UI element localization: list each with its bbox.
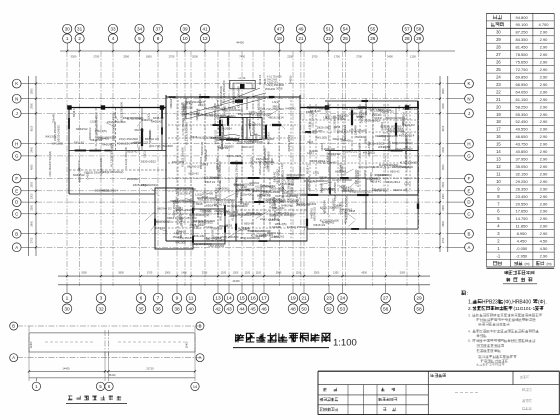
svg-text:51: 51 — [326, 27, 332, 32]
top grid bubbles — [63, 24, 424, 43]
svg-text:WKL3(5): WKL3(5) — [312, 129, 322, 133]
svg-text:8Φ2%0 2/2: 8Φ2%0 2/2 — [298, 204, 311, 207]
svg-text:KL12(3) 300x600: KL12(3) 300x600 — [204, 106, 226, 110]
svg-text:Φ8@100/200(2): Φ8@100/200(2) — [374, 174, 392, 177]
svg-text:7400: 7400 — [239, 55, 245, 59]
svg-text:WKL3(5): WKL3(5) — [315, 136, 327, 140]
svg-text:3300: 3300 — [123, 55, 129, 59]
svg-text:G4Φ10: G4Φ10 — [250, 157, 254, 167]
svg-text:3300: 3300 — [71, 55, 77, 59]
svg-text:WKL3(5): WKL3(5) — [406, 138, 409, 148]
svg-text:3Φ18: 3Φ18 — [349, 209, 356, 213]
svg-text:90.100: 90.100 — [515, 22, 528, 27]
svg-text:L3(1): L3(1) — [313, 170, 319, 174]
svg-text:2500: 2500 — [31, 181, 34, 187]
svg-text:L5(2) 250x500: L5(2) 250x500 — [49, 161, 52, 177]
svg-text:Φ8@100/200(2): Φ8@100/200(2) — [189, 213, 209, 217]
svg-text:L5(2) 250x500: L5(2) 250x500 — [119, 137, 139, 141]
beam annotations — [45, 74, 418, 248]
svg-text:WKL3(5): WKL3(5) — [337, 113, 349, 117]
svg-text:84.350: 84.350 — [515, 37, 528, 42]
svg-text:WKL3(5): WKL3(5) — [292, 176, 295, 186]
svg-text:8Φ2%0 2/2: 8Φ2%0 2/2 — [343, 149, 358, 153]
svg-text:54: 54 — [343, 27, 349, 32]
svg-text:2900: 2900 — [442, 103, 445, 109]
svg-text:2700: 2700 — [442, 237, 445, 243]
svg-text:L5(2) 250x500: L5(2) 250x500 — [202, 175, 219, 179]
svg-text:3Φ18: 3Φ18 — [190, 135, 197, 139]
svg-text:46.650: 46.650 — [515, 134, 528, 139]
svg-text:8Φ2%0 2/2: 8Φ2%0 2/2 — [145, 137, 159, 141]
svg-text:14: 14 — [193, 385, 197, 389]
svg-text:2.90: 2.90 — [540, 119, 549, 124]
svg-text:K: K — [15, 81, 18, 86]
svg-text:G4Φ10: G4Φ10 — [155, 226, 165, 230]
svg-text:34: 34 — [137, 27, 143, 32]
svg-text:12: 12 — [202, 36, 208, 41]
svg-text:KL7(2) 250x600: KL7(2) 250x600 — [231, 200, 235, 221]
svg-text:49.550: 49.550 — [515, 127, 528, 132]
svg-text:B: B — [12, 324, 15, 329]
svg-text:35.050: 35.050 — [515, 164, 528, 169]
svg-text:B: B — [199, 324, 202, 329]
svg-text:19: 19 — [290, 296, 296, 302]
svg-text:6Φ18 4/2: 6Φ18 4/2 — [244, 223, 254, 226]
svg-text:H: H — [15, 141, 18, 146]
svg-text:250x400: 250x400 — [241, 193, 253, 197]
svg-text:2Φ25+2Φ22: 2Φ25+2Φ22 — [133, 183, 148, 187]
svg-text:81.450: 81.450 — [515, 45, 528, 50]
svg-text:4Φ16;2Φ14: 4Φ16;2Φ14 — [386, 180, 401, 184]
svg-text:2.90: 2.90 — [540, 45, 549, 50]
svg-text:F: F — [15, 176, 18, 181]
svg-text:3Φ18: 3Φ18 — [327, 102, 330, 109]
svg-text:L5(2) 250x500: L5(2) 250x500 — [395, 147, 413, 151]
svg-text:6Φ18 4/2: 6Φ18 4/2 — [242, 146, 253, 149]
svg-text:26: 26 — [496, 60, 501, 65]
svg-text:35: 35 — [138, 306, 144, 312]
svg-text:75.650: 75.650 — [515, 60, 528, 65]
svg-text:8Φ2%0 2/2: 8Φ2%0 2/2 — [95, 189, 110, 193]
svg-text:37.950: 37.950 — [515, 157, 528, 162]
grid axis lines (dash-dot) — [36, 51, 448, 286]
svg-text:53: 53 — [340, 306, 346, 312]
svg-text:E: E — [15, 188, 18, 193]
svg-text:2.90: 2.90 — [540, 82, 549, 87]
svg-text:B: B — [15, 231, 18, 236]
svg-text:250x400: 250x400 — [53, 113, 56, 123]
svg-text:14.750: 14.750 — [515, 216, 528, 221]
svg-text:52.450: 52.450 — [515, 119, 528, 124]
svg-text:26.350: 26.350 — [515, 186, 528, 191]
svg-text:G4Φ10: G4Φ10 — [334, 203, 344, 207]
svg-text:4.700: 4.700 — [538, 22, 549, 27]
svg-text:2.90: 2.90 — [540, 52, 549, 57]
svg-text:250x400: 250x400 — [354, 125, 358, 136]
svg-text:2Φ25+2Φ22: 2Φ25+2Φ22 — [192, 234, 207, 238]
svg-text:WKL3(5): WKL3(5) — [275, 222, 287, 226]
svg-text:1400: 1400 — [181, 271, 187, 274]
svg-text:24: 24 — [340, 296, 346, 302]
svg-text:21: 21 — [301, 296, 307, 302]
svg-text:2.90: 2.90 — [540, 97, 549, 102]
svg-text:2700: 2700 — [169, 55, 175, 59]
svg-text:2900: 2900 — [276, 271, 282, 274]
svg-text:KL12(3) 300x600: KL12(3) 300x600 — [332, 178, 352, 182]
building walls — [67, 76, 418, 250]
svg-text:6Φ18 4/2: 6Φ18 4/2 — [73, 106, 76, 117]
left dimension lines — [21, 76, 37, 256]
svg-text:4.: 4. — [468, 330, 471, 334]
svg-text:27: 27 — [496, 52, 501, 57]
svg-text:20.550: 20.550 — [515, 201, 528, 206]
left grid bubbles — [12, 79, 21, 252]
svg-text:2.90: 2.90 — [540, 67, 549, 72]
svg-text:2.90: 2.90 — [540, 30, 549, 35]
svg-text:L5(2) 250x500: L5(2) 250x500 — [333, 182, 337, 201]
svg-text:29: 29 — [496, 37, 501, 42]
svg-text:-0.050: -0.050 — [516, 246, 528, 251]
svg-text:87.250: 87.250 — [515, 30, 528, 35]
svg-text:KL7(2) 250x600: KL7(2) 250x600 — [151, 144, 173, 148]
svg-text:Φ8@100/200(2): Φ8@100/200(2) — [280, 170, 284, 192]
storey table — [486, 13, 554, 283]
svg-text:L3(1): L3(1) — [404, 182, 411, 186]
svg-text:55: 55 — [370, 27, 376, 32]
svg-text:L3(1): L3(1) — [198, 103, 205, 107]
svg-text:20: 20 — [496, 104, 501, 109]
svg-text:G4Φ10: G4Φ10 — [270, 235, 279, 239]
svg-text:6Φ18 4/2: 6Φ18 4/2 — [307, 163, 310, 174]
svg-text:43: 43 — [226, 306, 232, 312]
svg-text:58.250: 58.250 — [515, 104, 528, 109]
svg-text:Φ8@100/200(2): Φ8@100/200(2) — [392, 141, 413, 145]
svg-text:3Φ18: 3Φ18 — [270, 213, 277, 217]
svg-text:2.90: 2.90 — [540, 209, 549, 214]
svg-text:58: 58 — [416, 306, 422, 312]
svg-text:L3(1): L3(1) — [307, 151, 314, 155]
svg-text:2.90: 2.90 — [540, 60, 549, 65]
svg-text:2.90: 2.90 — [540, 231, 549, 236]
svg-text:-2.950: -2.950 — [516, 254, 528, 259]
svg-text:15: 15 — [496, 142, 501, 147]
svg-text:13: 13 — [496, 157, 501, 162]
svg-text:4.50: 4.50 — [540, 239, 549, 244]
svg-text:N4Φ2%2: N4Φ2%2 — [281, 204, 293, 208]
svg-text:18: 18 — [496, 119, 501, 124]
right dimension lines — [439, 76, 465, 252]
svg-text:11.850: 11.850 — [516, 224, 529, 229]
svg-text:Φ8@100/200(2): Φ8@100/200(2) — [102, 170, 123, 174]
svg-text:2.90: 2.90 — [540, 224, 549, 229]
svg-text:4: 4 — [112, 36, 115, 41]
svg-text:6Φ18 4/2: 6Φ18 4/2 — [245, 98, 249, 110]
svg-text:KL7(2) 250x600: KL7(2) 250x600 — [127, 119, 144, 121]
svg-text:KL7(2) 250x600: KL7(2) 250x600 — [149, 129, 152, 148]
svg-text:L5(2) 250x500: L5(2) 250x500 — [279, 198, 299, 202]
svg-text:G4Φ10: G4Φ10 — [272, 196, 276, 205]
svg-text:KL7(2) 250x600: KL7(2) 250x600 — [384, 165, 403, 169]
svg-text:KL7(2) 250x600: KL7(2) 250x600 — [237, 86, 241, 108]
svg-text:55.350: 55.350 — [515, 112, 528, 117]
svg-text:22: 22 — [326, 36, 332, 41]
svg-text:2700: 2700 — [202, 271, 208, 274]
svg-text:B: B — [468, 231, 471, 236]
svg-text:2.90: 2.90 — [540, 186, 549, 191]
svg-text:2.: 2. — [468, 306, 472, 311]
leader hairlines — [106, 99, 361, 238]
svg-text:42: 42 — [215, 306, 221, 312]
svg-text:2Φ25+2Φ22: 2Φ25+2Φ22 — [176, 208, 193, 212]
svg-text:38: 38 — [174, 306, 180, 312]
svg-text:50: 50 — [301, 306, 307, 312]
svg-text:2Φ25+2Φ22: 2Φ25+2Φ22 — [253, 189, 268, 193]
svg-text:L5(2) 250x500: L5(2) 250x500 — [263, 148, 267, 168]
svg-text:4Φ16;2Φ14: 4Φ16;2Φ14 — [314, 106, 328, 110]
svg-text:5: 5 — [138, 36, 141, 41]
svg-text:10: 10 — [182, 36, 188, 41]
svg-text:30: 30 — [64, 306, 70, 312]
svg-text:N4Φ2%2: N4Φ2%2 — [339, 165, 343, 178]
svg-text:6Φ18 4/2: 6Φ18 4/2 — [127, 150, 138, 153]
svg-text:4Φ16;2Φ14: 4Φ16;2Φ14 — [210, 226, 214, 241]
svg-text:L3(1): L3(1) — [357, 115, 364, 119]
svg-text:21: 21 — [298, 36, 304, 41]
svg-text:4300: 4300 — [361, 271, 367, 274]
svg-text:KL7(2) 250x600: KL7(2) 250x600 — [222, 80, 226, 102]
svg-text:2.90: 2.90 — [540, 142, 549, 147]
svg-text:5.: 5. — [468, 339, 471, 343]
svg-text:15: 15 — [239, 296, 245, 302]
svg-text:N4Φ2%2: N4Φ2%2 — [204, 149, 208, 161]
svg-text:G4Φ10: G4Φ10 — [342, 189, 352, 193]
svg-text:28: 28 — [404, 36, 410, 41]
svg-text:2Φ25+2Φ22: 2Φ25+2Φ22 — [307, 175, 311, 190]
svg-text:2.90: 2.90 — [540, 254, 549, 259]
svg-text:16: 16 — [250, 296, 256, 302]
svg-text:14400: 14400 — [62, 367, 70, 371]
svg-text:3Φ18: 3Φ18 — [196, 202, 203, 206]
svg-text:12: 12 — [496, 164, 501, 169]
svg-text:2.90: 2.90 — [540, 75, 549, 80]
svg-text:1.: 1. — [468, 300, 472, 306]
svg-text:KL12(3) 300x600: KL12(3) 300x600 — [84, 172, 104, 175]
svg-text:2700: 2700 — [356, 55, 362, 59]
svg-text:G: G — [467, 154, 471, 159]
svg-text:1100: 1100 — [245, 271, 251, 274]
svg-text:4500: 4500 — [31, 164, 34, 170]
svg-text:2900: 2900 — [31, 103, 34, 109]
svg-text:1: 1 — [66, 36, 69, 41]
svg-text:2500: 2500 — [442, 181, 445, 187]
svg-text:KL7(2) 250x600: KL7(2) 250x600 — [349, 130, 367, 133]
svg-text:1100: 1100 — [256, 271, 262, 274]
svg-text:1350: 1350 — [333, 271, 339, 274]
svg-text:KL12(3) 300x600: KL12(3) 300x600 — [255, 187, 274, 189]
svg-text:43.750: 43.750 — [515, 142, 528, 147]
svg-text:8Φ2%0 2/2: 8Φ2%0 2/2 — [157, 206, 172, 210]
svg-text:26: 26 — [370, 36, 376, 41]
svg-text:3900: 3900 — [442, 220, 445, 226]
svg-text:C: C — [15, 211, 18, 216]
svg-text:25: 25 — [343, 36, 349, 41]
svg-text:2Φ25+2Φ22: 2Φ25+2Φ22 — [227, 154, 242, 158]
svg-text:L5(2) 250x500: L5(2) 250x500 — [342, 106, 360, 110]
svg-text:2.90: 2.90 — [540, 89, 549, 94]
svg-text:J: J — [16, 111, 18, 116]
svg-text:3Φ18: 3Φ18 — [235, 204, 238, 210]
svg-text:250x400: 250x400 — [127, 177, 139, 181]
svg-text:KL7(2) 250x600: KL7(2) 250x600 — [173, 200, 194, 204]
svg-text:Φ8@100/200(2): Φ8@100/200(2) — [175, 187, 196, 191]
svg-text:21710: 21710 — [146, 367, 154, 371]
svg-text:2Φ25+2Φ22: 2Φ25+2Φ22 — [276, 212, 290, 215]
svg-text:3900: 3900 — [31, 220, 34, 226]
svg-text:G4Φ10: G4Φ10 — [228, 106, 237, 110]
svg-text:2300: 2300 — [31, 205, 34, 211]
svg-text:64.050: 64.050 — [515, 89, 528, 94]
svg-text:6Φ18 4/2: 6Φ18 4/2 — [337, 129, 348, 133]
svg-text:Φ8@100/200(2): Φ8@100/200(2) — [233, 182, 254, 186]
svg-text:23.450: 23.450 — [515, 194, 528, 199]
svg-text:11: 11 — [496, 171, 501, 176]
svg-text:6Φ18 4/2: 6Φ18 4/2 — [371, 181, 382, 184]
notes text — [461, 291, 547, 363]
svg-text:2.90: 2.90 — [540, 179, 549, 184]
svg-text:6Φ18 4/2: 6Φ18 4/2 — [74, 141, 85, 144]
svg-text:4Φ16;2Φ14: 4Φ16;2Φ14 — [200, 156, 203, 169]
svg-text:25: 25 — [496, 67, 501, 72]
svg-text:2Φ25+2Φ22: 2Φ25+2Φ22 — [214, 209, 229, 213]
svg-text:8Φ2%0 2/2: 8Φ2%0 2/2 — [200, 141, 204, 155]
svg-text:2500: 2500 — [314, 271, 320, 274]
drawing title — [233, 333, 357, 349]
svg-text:1700: 1700 — [147, 271, 153, 274]
svg-text:HPB235: HPB235 — [482, 300, 501, 306]
svg-text:N4Φ2%2: N4Φ2%2 — [76, 127, 88, 131]
svg-text:29: 29 — [416, 36, 422, 41]
svg-text:2: 2 — [78, 36, 81, 41]
svg-text:F: F — [468, 176, 471, 181]
svg-text:250x400: 250x400 — [240, 126, 244, 137]
svg-text:33: 33 — [110, 27, 116, 32]
svg-text:Φ8@100/200(2): Φ8@100/200(2) — [358, 166, 375, 169]
bottom grid bubbles — [62, 293, 424, 313]
svg-text:2Φ25+2Φ22: 2Φ25+2Φ22 — [287, 134, 291, 151]
svg-text:32: 32 — [98, 306, 104, 312]
svg-text:A: A — [199, 355, 202, 360]
svg-text:2200: 2200 — [287, 55, 293, 59]
svg-text:Φ8@100/200(2): Φ8@100/200(2) — [238, 113, 255, 116]
svg-text:KL12(3) 300x600: KL12(3) 300x600 — [185, 122, 189, 145]
svg-text:16: 16 — [496, 134, 501, 139]
svg-text:17.650: 17.650 — [515, 209, 528, 214]
svg-text:Φ8@100/200(2): Φ8@100/200(2) — [387, 133, 391, 152]
svg-text:11400: 11400 — [186, 341, 189, 348]
svg-text:2700: 2700 — [31, 237, 34, 243]
svg-text:L3(1): L3(1) — [175, 232, 181, 235]
svg-text:KL7(2) 250x600: KL7(2) 250x600 — [318, 161, 337, 165]
svg-text:Φ8@100/200(2): Φ8@100/200(2) — [231, 83, 235, 104]
svg-text:40.850: 40.850 — [515, 149, 528, 154]
svg-text:28: 28 — [496, 45, 501, 50]
svg-text:L3(1): L3(1) — [143, 151, 147, 157]
svg-text:L3(1): L3(1) — [147, 113, 151, 119]
svg-text:L5(2) 250x500: L5(2) 250x500 — [311, 111, 314, 128]
svg-text:WKL3(5): WKL3(5) — [363, 151, 375, 155]
svg-text:39: 39 — [182, 27, 188, 32]
svg-text:49: 49 — [298, 27, 304, 32]
svg-text:2.90: 2.90 — [540, 201, 549, 206]
svg-text::: : — [467, 291, 468, 297]
svg-text:2300: 2300 — [442, 205, 445, 211]
svg-text:2Φ25+2Φ22: 2Φ25+2Φ22 — [198, 220, 213, 224]
svg-text:3Φ18: 3Φ18 — [202, 196, 209, 199]
svg-text:H: H — [467, 141, 470, 146]
svg-text:19: 19 — [496, 112, 501, 117]
svg-text:23: 23 — [326, 296, 332, 302]
top dimension line — [60, 41, 455, 59]
svg-text:4Φ16;2Φ14: 4Φ16;2Φ14 — [117, 142, 132, 146]
svg-text:2.90: 2.90 — [540, 37, 549, 42]
svg-text:21: 21 — [496, 97, 501, 102]
svg-text:250x400: 250x400 — [98, 137, 110, 141]
svg-text:Φ8@100/200(2): Φ8@100/200(2) — [154, 220, 171, 223]
svg-text:6Φ18 4/2: 6Φ18 4/2 — [78, 160, 81, 170]
svg-text:2.90: 2.90 — [540, 104, 549, 109]
svg-text:N4Φ2%2: N4Φ2%2 — [170, 98, 173, 108]
svg-text:30: 30 — [496, 30, 501, 35]
svg-text:2.90: 2.90 — [540, 112, 549, 117]
svg-text:6Φ18 4/2: 6Φ18 4/2 — [205, 180, 216, 184]
svg-text:8Φ2%0 2/2: 8Φ2%0 2/2 — [313, 207, 317, 221]
svg-text:2800: 2800 — [442, 88, 445, 94]
svg-text:3300: 3300 — [400, 271, 406, 274]
svg-text:3400: 3400 — [387, 55, 393, 59]
svg-text:57: 57 — [404, 27, 410, 32]
svg-text:22: 22 — [496, 89, 501, 94]
svg-text:WKL3(5): WKL3(5) — [370, 109, 381, 113]
svg-text:K: K — [468, 81, 471, 86]
svg-text:L3(1): L3(1) — [399, 105, 401, 111]
svg-text:36110: 36110 — [108, 373, 116, 377]
svg-text:N: N — [15, 96, 18, 101]
svg-text:6100: 6100 — [442, 125, 445, 131]
svg-text:8Φ2%0 2/2: 8Φ2%0 2/2 — [248, 229, 263, 233]
svg-text:Φ8@100/200(2): Φ8@100/200(2) — [349, 190, 371, 194]
svg-text:1300: 1300 — [233, 271, 239, 274]
svg-text:3Φ18: 3Φ18 — [334, 126, 341, 129]
svg-text:8Φ2%0 2/2: 8Φ2%0 2/2 — [403, 107, 419, 111]
svg-text:7: 7 — [157, 296, 160, 302]
svg-text:11400: 11400 — [30, 341, 33, 348]
svg-text:8.950: 8.950 — [517, 231, 528, 236]
svg-text:L3(1): L3(1) — [196, 113, 202, 116]
svg-text:KL7(2) 250x600: KL7(2) 250x600 — [234, 160, 238, 182]
svg-text:A: A — [468, 245, 471, 250]
svg-text:(m): (m) — [546, 262, 551, 266]
svg-text:1700: 1700 — [334, 55, 340, 59]
svg-text:8Φ2%0 2/2: 8Φ2%0 2/2 — [380, 109, 394, 113]
svg-text:2000: 2000 — [192, 55, 198, 59]
svg-text:2.90: 2.90 — [540, 134, 549, 139]
svg-text:18: 18 — [277, 36, 283, 41]
svg-text:D: D — [467, 200, 470, 205]
svg-text:2.90: 2.90 — [540, 194, 549, 199]
svg-text:4Φ16;2Φ14: 4Φ16;2Φ14 — [218, 127, 233, 131]
svg-text:Φ8@100/200(2): Φ8@100/200(2) — [192, 242, 212, 246]
svg-text:37: 37 — [155, 27, 161, 32]
